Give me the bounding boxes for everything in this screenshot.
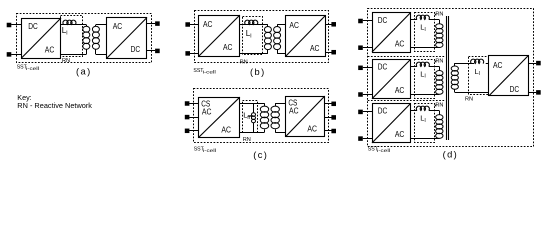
svg-text:AC: AC: [395, 85, 405, 95]
svg-text:DC: DC: [131, 44, 141, 54]
svg-text:RN: RN: [435, 12, 443, 18]
svg-text:(b): (b): [250, 67, 266, 77]
svg-text:DC: DC: [378, 15, 388, 25]
svg-text:(d): (d): [443, 149, 459, 159]
svg-text:AC: AC: [202, 107, 212, 117]
svg-text:AC: AC: [289, 20, 299, 30]
svg-text:RN: RN: [240, 59, 248, 65]
svg-text:DC: DC: [378, 106, 388, 116]
svg-text:AC: AC: [307, 123, 317, 133]
svg-text:RN: RN: [243, 137, 251, 143]
svg-text:AC: AC: [493, 60, 503, 70]
svg-text:i-cell: i-cell: [203, 70, 216, 75]
svg-text:AC: AC: [221, 124, 231, 134]
svg-text:DC: DC: [378, 62, 388, 72]
svg-text:RN: RN: [435, 59, 443, 65]
svg-text:i-cell: i-cell: [26, 66, 39, 71]
svg-text:RN: RN: [62, 58, 70, 64]
svg-text:i-cell: i-cell: [377, 148, 390, 153]
svg-text:AC: AC: [289, 106, 299, 116]
svg-text:DC: DC: [28, 21, 38, 31]
svg-text:AC: AC: [395, 129, 405, 139]
svg-text:AC: AC: [223, 42, 233, 52]
svg-text:(a): (a): [76, 66, 92, 76]
svg-text:RN: RN: [465, 96, 473, 102]
svg-text:AC: AC: [395, 38, 405, 48]
svg-text:RN: RN: [435, 103, 443, 109]
svg-text:DC: DC: [510, 84, 520, 94]
svg-text:AC: AC: [310, 43, 320, 53]
svg-text:RN - Reactive Network: RN - Reactive Network: [17, 101, 92, 110]
svg-text:AC: AC: [203, 19, 213, 29]
svg-text:(c): (c): [253, 150, 268, 160]
svg-text:AC: AC: [113, 21, 123, 31]
svg-text:i-cell: i-cell: [203, 148, 216, 153]
svg-text:AC: AC: [45, 44, 55, 54]
